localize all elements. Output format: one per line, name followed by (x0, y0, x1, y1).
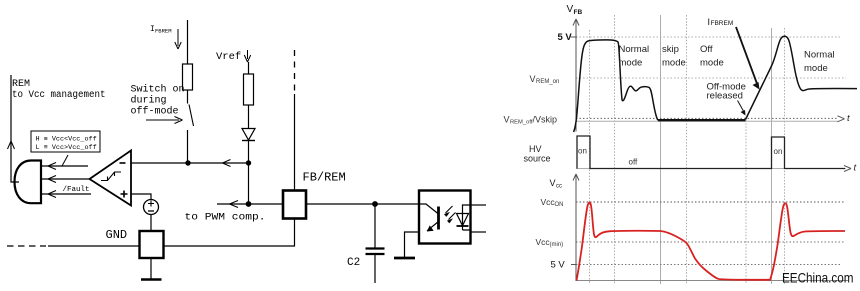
GND pin block (140, 231, 164, 258)
wire comparator plus input (131, 194, 151, 200)
svg-text:GND: GND (106, 228, 128, 242)
svg-text:to PWM comp.: to PWM comp. (185, 212, 266, 224)
svg-text:/Fault: /Fault (63, 186, 90, 194)
svg-text:mode: mode (619, 58, 643, 69)
wire source to GND block (150, 215, 152, 232)
minus label (inverting input) (120, 162, 126, 164)
svg-text:on: on (578, 147, 587, 156)
gridline x=660.5 (660, 15, 662, 284)
resistor R1 (183, 64, 193, 90)
VFB curve off-mode rise + last hump (746, 36, 858, 119)
svg-text:REM_on: REM_on (536, 79, 559, 85)
svg-text:t: t (854, 163, 857, 174)
tick 5V (571, 36, 578, 38)
svg-text:C2: C2 (347, 257, 360, 269)
gridline x=784.5 (784, 28, 786, 284)
label GND (106, 228, 128, 242)
wire FB/REM top (dashed then solid) (294, 50, 296, 94)
svg-text:FBREM: FBREM (711, 20, 734, 27)
HV t-axis line (576, 168, 846, 170)
VFB curve skip/off flat (bold) (658, 119, 746, 121)
label IFBREM current (150, 25, 172, 35)
svg-text:HV: HV (529, 144, 542, 154)
label Switch on during off-mode (131, 84, 185, 118)
svg-text:off-mode: off-mode (131, 106, 179, 118)
wire to PWM comp. (from FB/REM pin) (217, 203, 283, 205)
svg-text:(min): (min) (550, 242, 564, 248)
svg-text:source: source (524, 154, 551, 164)
HV source waveform (577, 136, 845, 169)
dotted level VREM_on (576, 77, 846, 79)
label Vref (216, 51, 241, 63)
arrow Off-mode released to curve (738, 101, 745, 113)
svg-text:t: t (847, 113, 850, 124)
label /Fault (63, 186, 90, 194)
dotted level 5V (VFB) (576, 36, 841, 38)
wire comparator output to AND middle input (41, 178, 89, 180)
label C2 (347, 257, 360, 269)
svg-text:FB/REM: FB/REM (303, 171, 346, 185)
arrow IFBREM down (177, 29, 179, 46)
VFB curve (574, 40, 663, 132)
svg-text:V: V (550, 178, 556, 188)
op-amp comparator U2 (90, 151, 132, 206)
svg-text:mode: mode (662, 58, 686, 69)
wire inverting-input rail (131, 162, 249, 164)
svg-text:FB: FB (574, 9, 583, 16)
svg-text:L ≡ Vcc>Vcc_off: L ≡ Vcc>Vcc_off (36, 144, 97, 152)
svg-text:to Vcc management: to Vcc management (12, 90, 106, 101)
wire node to C2 (374, 204, 376, 248)
wire switch to rail (187, 130, 189, 163)
svg-text:Vcc: Vcc (536, 237, 551, 247)
svg-text:Off: Off (700, 44, 713, 55)
svg-text:skip: skip (662, 44, 679, 55)
svg-text:mode: mode (804, 63, 828, 74)
arrow IFBREM to curve (736, 27, 758, 85)
wire Vref to resistor (248, 62, 250, 74)
svg-text:5 V: 5 V (551, 260, 566, 271)
svg-text:Normal: Normal (804, 50, 835, 61)
dotted level VREM_off/Vskip (576, 117, 838, 119)
arrow Vref down (247, 50, 249, 59)
wire IFBREM column top (187, 20, 189, 64)
dotted level VccON (576, 201, 845, 203)
t-axis arrowhead (VFB) (838, 116, 845, 122)
note box H/L Vcc_off (31, 131, 100, 152)
svg-text:5 V: 5 V (558, 32, 573, 43)
svg-text:released: released (707, 91, 743, 102)
gridline x=771.5 (771, 28, 773, 284)
gridline x=686.5 (686, 15, 688, 284)
label to PWM comp. (185, 212, 266, 224)
resistor R2 (244, 74, 254, 105)
wire AND bottom input /Fault (41, 193, 91, 195)
voltage source V1 (144, 200, 159, 215)
svg-text:EEChina.com: EEChina.com (782, 270, 854, 286)
wire diode to rail node (248, 141, 250, 163)
wire AND top input (from H/L note) (41, 165, 88, 167)
svg-text:ON: ON (555, 202, 564, 208)
t-axis arrowhead (HV) (844, 166, 851, 172)
node junction diode column / inverting rail (246, 160, 251, 165)
optocoupler U3 box (419, 191, 471, 244)
gridline x=746 (off-mode released) (745, 117, 747, 284)
diode D1 (242, 129, 255, 141)
hysteresis symbol (101, 172, 121, 181)
svg-text:/Vskip: /Vskip (533, 115, 558, 125)
svg-text:Normal: Normal (619, 44, 650, 55)
svg-text:H ≡ Vcc<Vcc_off: H ≡ Vcc<Vcc_off (36, 136, 97, 144)
svg-text:Switch on: Switch on (131, 84, 185, 96)
chart text labels (504, 4, 857, 286)
wire AND-gate output up to REM management (arrow up) (11, 75, 19, 182)
VFB t-axis line (576, 120, 838, 122)
dotted level 5V (Vcc) (576, 264, 841, 266)
arrow to switch (146, 119, 179, 121)
switch S1 (open blade) (189, 105, 194, 127)
wire resistor to switch (187, 90, 189, 104)
Vcc chart bottom line (576, 280, 848, 282)
label REM to Vcc management (12, 79, 106, 101)
svg-text:REM: REM (12, 79, 30, 90)
ground rail left (dashed continuation) (7, 245, 46, 247)
wire optocoupler emitter to ground (405, 232, 420, 257)
svg-text:cc: cc (556, 184, 562, 190)
svg-text:V: V (504, 115, 510, 125)
dotted level Vcc(min) (576, 241, 845, 243)
slash connector to H/L note (62, 155, 68, 166)
node junction PWM rail (246, 201, 252, 207)
Vcc axis vertical (575, 175, 577, 281)
label FB/REM (303, 171, 346, 185)
wire resistor R2 to diode (248, 105, 250, 128)
tick 5V (Vcc) (571, 264, 577, 266)
wire opto collector out right top (471, 204, 487, 206)
arrowhead pointing left (230, 201, 239, 208)
wire node down to PWM rail (248, 163, 250, 204)
arrowhead on rail (pointing left) (223, 160, 231, 167)
svg-text:on: on (774, 147, 783, 156)
Vcc red curve (577, 202, 846, 280)
svg-text:V: V (567, 4, 574, 15)
svg-text:Vcc: Vcc (541, 197, 556, 207)
wire C2 down (374, 255, 376, 283)
phototransistor (inside U3) (437, 207, 440, 230)
svg-text:Vref: Vref (216, 51, 241, 63)
ground symbol (141, 278, 162, 281)
AND gate U1 (mirrored, inputs right) (15, 161, 42, 204)
svg-text:FBREM: FBREM (155, 28, 172, 35)
svg-text:during: during (131, 95, 167, 107)
pin FB/REM block (283, 191, 306, 219)
gridline x=590 (589, 30, 591, 284)
axis VFB vertical (571, 19, 852, 281)
wire GND block to ground (150, 258, 152, 279)
capacitor C2 (366, 247, 385, 249)
wire GND block to FB/REM pin bottom (164, 219, 295, 247)
svg-text:V: V (530, 74, 536, 84)
wire rail to GND block (48, 245, 140, 247)
ground symbol (opto) (394, 257, 415, 260)
node junction at IFBREM column (185, 160, 190, 165)
svg-text:off: off (629, 158, 639, 167)
wire FB/REM to optocoupler (306, 203, 419, 205)
wire opto cathode out right bottom (471, 231, 487, 233)
gridline x=614.5 (614, 15, 616, 284)
LED (inside U3) (463, 205, 471, 214)
svg-text:REM_off: REM_off (510, 120, 533, 126)
light arrows LED to transistor (446, 206, 456, 220)
svg-text:mode: mode (700, 58, 724, 69)
plus label (non-inverting input) (121, 191, 128, 198)
node junction C2 (372, 201, 378, 207)
